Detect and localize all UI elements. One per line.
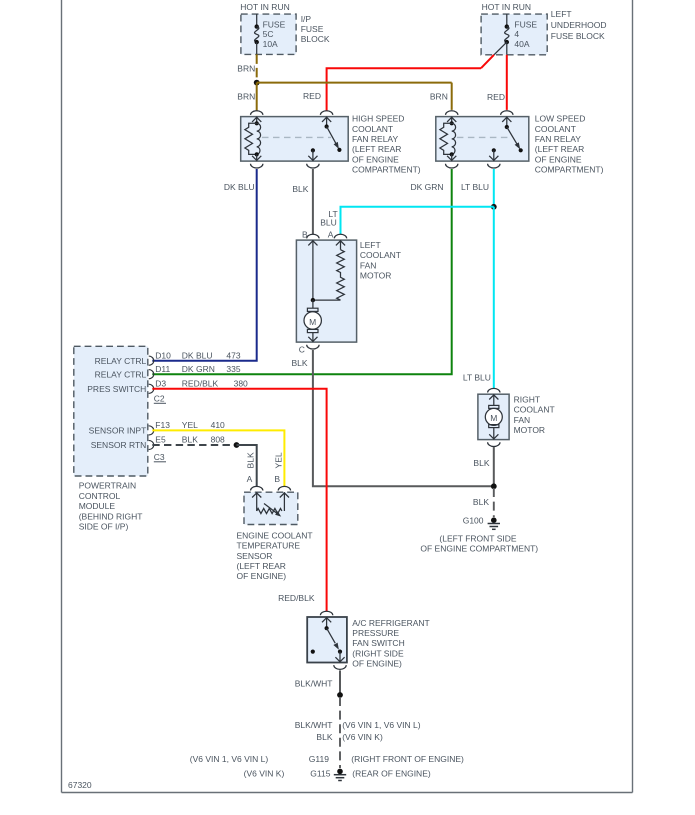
svg-text:COOLANT: COOLANT (514, 405, 555, 415)
svg-text:SENSOR INPT: SENSOR INPT (89, 426, 147, 436)
wire RED horizontal feed to high speed relay (327, 68, 481, 110)
HS relay switch common connector (320, 111, 332, 115)
svg-text:M: M (309, 317, 316, 327)
svg-text:G115: G115 (310, 769, 330, 779)
pressure switch NO contact dot (311, 650, 315, 654)
svg-text:MOTOR: MOTOR (514, 425, 545, 435)
svg-text:LT BLU: LT BLU (463, 373, 491, 383)
fuse F5C lead top (256, 14, 258, 27)
left motor lead to motor (312, 300, 314, 308)
svg-text:(RIGHT FRONT OF ENGINE): (RIGHT FRONT OF ENGINE) (351, 754, 464, 764)
wire DK GRN from LS relay coil to PCM D11 (152, 169, 451, 374)
high speed coolant fan relay box (241, 117, 349, 162)
svg-text:B: B (274, 474, 280, 484)
svg-text:PRES SWITCH: PRES SWITCH (87, 384, 146, 394)
svg-text:HOT IN RUN: HOT IN RUN (482, 2, 531, 12)
LS relay coil bottom lead (451, 154, 453, 161)
svg-text:BLK/WHT: BLK/WHT (295, 720, 333, 730)
svg-text:380: 380 (234, 378, 248, 388)
junction dot BLK/WHT (337, 692, 343, 698)
powertrain control module box (dashed) (74, 346, 148, 476)
svg-text:C2: C2 (154, 393, 165, 403)
ECT thermistor arrow (264, 504, 279, 515)
wire BLK dashed to G100 (493, 488, 495, 517)
PCM pin E5 connector (149, 440, 154, 449)
wire BLK/WHT dashed to grounds (339, 697, 341, 768)
LS relay coil bottom dot (450, 152, 454, 156)
svg-text:SIDE OF I/P): SIDE OF I/P) (79, 522, 129, 532)
svg-text:DK GRN: DK GRN (182, 364, 215, 374)
svg-text:(LEFT REAR: (LEFT REAR (237, 561, 286, 571)
svg-text:410: 410 (211, 420, 225, 430)
left motor pin A connector (334, 234, 346, 238)
svg-text:BLU: BLU (320, 218, 337, 228)
svg-text:DK GRN: DK GRN (410, 182, 443, 192)
svg-text:5C: 5C (263, 29, 274, 39)
fuse F4 element (505, 27, 509, 42)
svg-text:F13: F13 (155, 420, 170, 430)
svg-text:FAN RELAY: FAN RELAY (535, 134, 581, 144)
HS relay switch common dot (325, 124, 329, 128)
LS relay actuation dashed line (457, 136, 509, 138)
pressure switch top connector (320, 611, 332, 615)
svg-text:(V6 VIN K): (V6 VIN K) (342, 732, 383, 742)
HS relay coil winding (257, 123, 261, 154)
HS relay switch blade (327, 127, 337, 145)
page border left (61, 0, 63, 793)
svg-text:(REAR OF ENGINE): (REAR OF ENGINE) (352, 769, 431, 779)
right motor brush bar bottom (489, 425, 499, 428)
svg-text:BLK: BLK (473, 497, 489, 507)
svg-text:LOW SPEED: LOW SPEED (535, 114, 586, 124)
LS relay switch contact dot (519, 148, 523, 152)
wire BRN horizontal branch (257, 82, 452, 84)
svg-text:CONTROL: CONTROL (79, 491, 121, 501)
svg-text:BRN: BRN (237, 64, 255, 74)
svg-text:C: C (299, 344, 305, 354)
left motor lead to pin C (312, 333, 314, 343)
svg-text:LEFT: LEFT (551, 9, 572, 19)
wire BLK from left motor C down and right (313, 350, 494, 486)
svg-text:BLK: BLK (182, 434, 198, 444)
engine coolant temperature sensor box (dashed) (244, 492, 298, 524)
wire RED/BLK from PCM D3 to pressure switch (152, 389, 326, 611)
wire BRN drop to low speed relay coil (451, 83, 453, 110)
wire BRN dashed from fuse 5C (256, 54, 258, 81)
HS relay coil top dot (255, 121, 259, 125)
svg-text:BLK: BLK (292, 184, 308, 194)
svg-text:I/P: I/P (301, 14, 312, 24)
svg-text:(LEFT REAR: (LEFT REAR (535, 144, 584, 154)
PCM pin D11 connector (149, 370, 154, 379)
svg-text:SENSOR RTN: SENSOR RTN (91, 440, 147, 450)
HS relay output dot (311, 148, 315, 152)
svg-text:BRN: BRN (237, 92, 255, 102)
ECT thermistor element (257, 508, 282, 513)
ECT pin B connector (278, 486, 290, 490)
LS relay switch common connector (501, 111, 513, 115)
left motor brush bar bottom (307, 329, 318, 332)
left motor pin A lead (340, 240, 342, 250)
ECT pin B lead (283, 492, 285, 511)
HS relay coil bottom lead (256, 154, 258, 161)
low speed coolant fan relay box (436, 117, 529, 162)
svg-text:FAN SWITCH: FAN SWITCH (352, 638, 404, 648)
svg-text:BLOCK: BLOCK (301, 34, 330, 44)
LS relay parallel resistor (440, 123, 452, 154)
svg-text:G119: G119 (309, 754, 329, 764)
HS relay parallel resistor (245, 123, 257, 154)
svg-text:RED: RED (303, 91, 321, 101)
svg-text:FUSE BLOCK: FUSE BLOCK (551, 31, 605, 41)
svg-text:HIGH SPEED: HIGH SPEED (352, 114, 404, 124)
svg-text:FAN RELAY: FAN RELAY (352, 134, 398, 144)
svg-text:FUSE: FUSE (263, 19, 286, 29)
svg-text:D10: D10 (155, 350, 171, 360)
svg-text:(LEFT REAR: (LEFT REAR (352, 144, 401, 154)
LS relay coil top connector (446, 111, 458, 115)
svg-text:(V6 VIN K): (V6 VIN K) (244, 769, 285, 779)
svg-text:335: 335 (226, 364, 240, 374)
junction dot BLK G100 (491, 483, 497, 489)
right motor top connector (488, 388, 500, 392)
left motor pin B connector (307, 234, 319, 238)
svg-text:OF ENGINE: OF ENGINE (535, 154, 582, 164)
svg-text:RED/BLK: RED/BLK (278, 593, 315, 603)
svg-text:(V6 VIN 1, V6 VIN L): (V6 VIN 1, V6 VIN L) (190, 754, 269, 764)
left motor brush bar top (307, 308, 318, 311)
svg-text:D11: D11 (155, 364, 170, 374)
ground G100 (488, 517, 500, 529)
left motor junction dot (311, 298, 315, 302)
HS relay coil bottom dot (255, 152, 259, 156)
page border bottom (62, 792, 633, 794)
HS relay actuation dashed line (262, 136, 331, 138)
LS relay switch blade (507, 127, 518, 145)
svg-text:OF ENGINE): OF ENGINE) (237, 571, 287, 581)
fuse F5C terminal dot bottom (255, 40, 259, 44)
fuse F4 diagonal lead (494, 42, 507, 55)
svg-text:DK BLU: DK BLU (224, 182, 255, 192)
svg-text:(LEFT FRONT SIDE: (LEFT FRONT SIDE (439, 533, 516, 543)
wire BLK 808 dashed from PCM E5 (152, 444, 235, 446)
wire BRN drop to high speed relay coil (256, 83, 258, 111)
svg-text:473: 473 (226, 350, 240, 360)
LS relay coil top dot (450, 121, 454, 125)
pressure switch output dot (338, 650, 342, 654)
HS relay output lead (312, 150, 314, 161)
svg-text:PRESSURE: PRESSURE (352, 628, 399, 638)
wire LT BLU horizontal to left fan motor A (341, 207, 494, 235)
fuse F4 terminal dot bottom (505, 40, 509, 44)
pressure switch blade (327, 628, 336, 643)
svg-text:RELAY CTRL: RELAY CTRL (95, 369, 147, 379)
svg-text:OF ENGINE COMPARTMENT): OF ENGINE COMPARTMENT) (420, 544, 538, 554)
ECT pin A lead (256, 492, 258, 511)
svg-text:COOLANT: COOLANT (360, 250, 401, 260)
svg-text:ENGINE COOLANT: ENGINE COOLANT (237, 530, 313, 540)
svg-text:YEL: YEL (274, 452, 284, 468)
right motor bottom lead (493, 428, 495, 440)
PCM pin D10 connector (149, 356, 154, 365)
svg-text:COMPARTMENT): COMPARTMENT) (352, 165, 421, 175)
svg-text:FAN: FAN (514, 415, 531, 425)
LS relay coil winding (452, 123, 456, 154)
PCM pin F13 connector (149, 426, 154, 435)
svg-text:(V6 VIN 1, V6 VIN L): (V6 VIN 1, V6 VIN L) (342, 720, 421, 730)
svg-text:FUSE: FUSE (301, 24, 324, 34)
LS relay output dot (492, 148, 496, 152)
svg-text:BLK: BLK (473, 458, 489, 468)
LS relay output lead (493, 150, 495, 161)
svg-text:C3: C3 (154, 452, 165, 462)
svg-text:OF ENGINE: OF ENGINE (352, 154, 399, 164)
svg-text:HOT IN RUN: HOT IN RUN (240, 2, 289, 12)
HS relay switch contact dot (337, 148, 341, 152)
wire YEL from PCM F13 to ECT sensor B (152, 430, 284, 486)
right motor armature circle (485, 408, 502, 425)
svg-text:BLK: BLK (292, 358, 308, 368)
svg-text:LEFT: LEFT (360, 240, 381, 250)
svg-text:FUSE: FUSE (514, 19, 537, 29)
fuse F5C terminal dot top (255, 24, 259, 28)
svg-text:COOLANT: COOLANT (352, 124, 393, 134)
wire LT BLU down to right fan motor (493, 207, 495, 389)
pressure switch output lead (339, 652, 341, 663)
fuse F5C lead bottom (256, 42, 258, 54)
svg-text:40A: 40A (514, 39, 529, 49)
ground G115 (334, 769, 346, 781)
svg-text:BLK/WHT: BLK/WHT (295, 679, 333, 689)
wire BLK 808 to ECT sensor A (237, 445, 257, 487)
a/c refrigerant pressure fan switch box (307, 617, 347, 663)
splice junction dot BLK 808 (234, 442, 240, 448)
svg-text:DK BLU: DK BLU (182, 350, 213, 360)
left motor armature circle (304, 312, 321, 329)
left motor resistor lead to junction (313, 299, 341, 301)
svg-text:LT BLU: LT BLU (461, 182, 489, 192)
svg-text:G100: G100 (463, 515, 484, 525)
svg-text:COMPARTMENT): COMPARTMENT) (535, 165, 604, 175)
left motor resistor (337, 250, 345, 300)
fuse F4 lead bottom (506, 42, 508, 55)
svg-text:COOLANT: COOLANT (535, 124, 576, 134)
svg-text:BLK: BLK (316, 732, 332, 742)
svg-text:(RIGHT SIDE: (RIGHT SIDE (352, 648, 404, 658)
wire RED vertical to low speed relay (506, 55, 508, 110)
svg-text:MODULE: MODULE (79, 501, 116, 511)
svg-text:E5: E5 (155, 434, 166, 444)
junction dot LT BLU (491, 204, 497, 210)
svg-text:A/C REFRIGERANT: A/C REFRIGERANT (352, 618, 429, 628)
left motor pin B lead (312, 240, 314, 300)
ECT pin A connector (251, 486, 263, 490)
HS relay coil top connector (251, 111, 263, 115)
left coolant fan motor box (296, 240, 356, 342)
svg-text:4: 4 (514, 29, 519, 39)
right motor brush bar top (489, 405, 499, 408)
svg-text:POWERTRAIN: POWERTRAIN (79, 481, 136, 491)
fuse F5C element (255, 27, 259, 42)
svg-text:RED: RED (487, 92, 505, 102)
svg-text:808: 808 (211, 434, 225, 444)
LS relay switch common dot (505, 125, 509, 129)
PCM pin D3 connector (149, 384, 154, 393)
wire BLK/WHT from pressure switch (339, 670, 341, 695)
I/P fuse block (dashed box) (241, 14, 296, 54)
svg-text:RELAY CTRL: RELAY CTRL (95, 356, 147, 366)
svg-text:M: M (490, 413, 497, 423)
pressure switch common dot (325, 626, 329, 630)
wire BLK from right motor down (493, 447, 495, 486)
svg-text:TEMPERATURE: TEMPERATURE (237, 541, 301, 551)
svg-text:YEL: YEL (182, 420, 198, 430)
svg-text:RIGHT: RIGHT (514, 395, 540, 405)
svg-text:FAN: FAN (360, 260, 377, 270)
svg-text:(BEHIND RIGHT: (BEHIND RIGHT (79, 511, 143, 521)
svg-text:A: A (328, 230, 334, 240)
svg-text:BRN: BRN (430, 92, 448, 102)
svg-text:MOTOR: MOTOR (360, 271, 391, 281)
left underhood fuse block (dashed box) (481, 14, 547, 55)
svg-text:OF ENGINE): OF ENGINE) (352, 659, 402, 669)
right coolant fan motor box (478, 394, 509, 439)
wire DK BLU from HS relay coil to PCM D10 (152, 169, 256, 361)
wire BLK from HS relay output to left fan motor B (312, 169, 314, 234)
page border right (632, 0, 634, 793)
svg-text:SENSOR: SENSOR (237, 551, 273, 561)
svg-text:10A: 10A (263, 39, 278, 49)
svg-text:D3: D3 (155, 378, 166, 388)
splice junction dot BRN (254, 80, 260, 86)
wire RED diagonal from fuse 4 (481, 55, 494, 68)
svg-text:RED/BLK: RED/BLK (182, 378, 219, 388)
wire LT BLU from LS relay output down (493, 169, 495, 207)
right motor top lead (493, 394, 495, 405)
fuse F4 lead top (506, 14, 508, 27)
svg-text:67320: 67320 (68, 780, 92, 790)
svg-text:UNDERHOOD: UNDERHOOD (551, 20, 607, 30)
svg-text:A: A (247, 474, 253, 484)
fuse F4 terminal dot top (505, 24, 509, 28)
svg-text:BLK: BLK (246, 452, 256, 468)
